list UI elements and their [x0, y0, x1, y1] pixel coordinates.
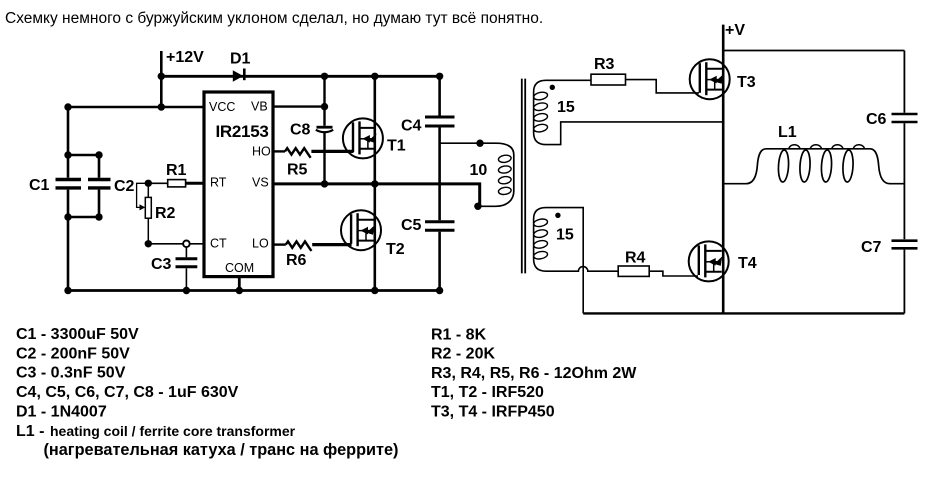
wire VB [273, 105, 325, 107]
inductor L1 [723, 145, 904, 184]
resistor R3 [591, 74, 626, 85]
capacitor C6 [892, 51, 918, 240]
phasing dot upper secondary [550, 85, 555, 90]
svg-text:C7: C7 [861, 239, 882, 256]
resistor R5 [285, 148, 311, 158]
node rail T1 [371, 73, 378, 80]
wire T2 drain-source vertical [373, 184, 376, 291]
svg-text:C1 - 3300uF 50V: C1 - 3300uF 50V [16, 326, 139, 343]
wire CT [148, 243, 204, 245]
node VCC junction [158, 103, 165, 110]
svg-text:T3: T3 [737, 74, 756, 91]
capacitor C4 [425, 76, 455, 220]
wire R1 to RT [186, 182, 204, 185]
node VB [321, 103, 328, 110]
phasing dot lower secondary [555, 213, 560, 218]
svg-text:D1: D1 [230, 51, 251, 68]
capacitor C1 [56, 107, 82, 291]
transistor T2 [341, 210, 381, 250]
svg-text:(нагревательная катуха / транс: (нагревательная катуха / транс на феррит… [44, 441, 399, 459]
node C1-C2 lower left [64, 213, 71, 220]
capacitor C5 [425, 222, 455, 291]
diode D1 [233, 69, 245, 82]
svg-text:VCC: VCC [209, 100, 235, 114]
wire ground rail [68, 289, 440, 292]
svg-text:VS: VS [252, 176, 269, 190]
svg-text:VB: VB [251, 100, 268, 114]
svg-text:T3, T4 - IRFP450: T3, T4 - IRFP450 [431, 404, 555, 421]
transformer secondary lower 15 turns [533, 208, 618, 314]
transistor T3 [690, 59, 730, 99]
node CT-C3 open junction [183, 241, 190, 248]
parts list right column [431, 326, 637, 420]
svg-text:T2: T2 [386, 241, 405, 258]
svg-text:C3 - 0.3nF 50V: C3 - 0.3nF 50V [16, 365, 126, 382]
node ground C3 [183, 287, 190, 294]
svg-text:HO: HO [252, 144, 271, 158]
svg-text:C2 - 200nF 50V: C2 - 200nF 50V [16, 345, 130, 362]
wire +12V supply vertical [160, 51, 163, 107]
resistor R4 [618, 266, 649, 276]
wire top right [723, 50, 904, 52]
svg-text:R3: R3 [594, 56, 615, 73]
wire COM to ground [238, 277, 241, 291]
svg-text:Схемку немного с буржуйским ук: Схемку немного с буржуйским уклоном сдел… [5, 10, 543, 27]
wire bottom right [583, 312, 904, 314]
svg-text:15: 15 [557, 99, 575, 116]
resistor R1 [168, 180, 186, 187]
svg-text:R4: R4 [625, 250, 646, 267]
svg-text:C6: C6 [866, 111, 887, 128]
capacitor C7 [892, 241, 918, 314]
wire T1 drain-source vertical [373, 76, 376, 184]
node ground COM [236, 287, 243, 294]
svg-text:15: 15 [556, 227, 574, 244]
node +12V rail junction [158, 73, 165, 80]
svg-text:IR2153: IR2153 [216, 122, 269, 141]
node VS C8 [321, 180, 328, 187]
node ground C5 [436, 287, 443, 294]
svg-text:LO: LO [252, 237, 269, 251]
svg-text:C2: C2 [114, 178, 135, 195]
svg-text:T1, T2 - IRF520: T1, T2 - IRF520 [431, 384, 544, 401]
svg-text:R2: R2 [155, 205, 176, 222]
wire C2 branch top [68, 154, 99, 157]
trimmer R2 [137, 183, 152, 244]
wire top rail D1 [161, 75, 439, 78]
node C1-C2 upper right [95, 151, 102, 158]
node rail C4 [436, 73, 443, 80]
parts list left column [16, 326, 398, 459]
node primary top [476, 140, 483, 147]
svg-text:R2 - 20K: R2 - 20K [431, 346, 495, 363]
node ground C1 [64, 287, 71, 294]
svg-text:+V: +V [725, 22, 745, 39]
capacitor C2 [88, 155, 111, 217]
svg-text:T1: T1 [387, 138, 406, 155]
wire node to R1 [148, 182, 167, 184]
node C1 top [64, 103, 71, 110]
svg-text:heating coil / ferrite core tr: heating coil / ferrite core transformer [50, 423, 296, 439]
transformer secondary upper 15 turns [533, 80, 723, 144]
transistor T4 [689, 241, 729, 281]
svg-text:+12V: +12V [166, 49, 204, 66]
node C1-C2 lower right [95, 213, 102, 220]
node R1-R2 junction [145, 180, 152, 187]
svg-text:COM: COM [225, 261, 254, 275]
svg-text:L1: L1 [778, 124, 797, 141]
svg-text:CT: CT [210, 237, 227, 251]
wire R6 to T2 gate [312, 243, 351, 246]
wire +V vertical [722, 25, 725, 314]
svg-text:R1: R1 [166, 162, 187, 179]
node VS T1-T2 [371, 180, 378, 187]
node C1-C2 upper left [64, 151, 71, 158]
transformer primary winding 10 turns [440, 143, 514, 206]
svg-text:C8: C8 [290, 122, 311, 139]
wire R4 to T4 gate [649, 271, 698, 276]
svg-text:RT: RT [210, 176, 227, 190]
svg-text:R1 - 8K: R1 - 8K [431, 326, 487, 343]
node R2-CT junction [145, 240, 152, 247]
node primary bottom [474, 203, 481, 210]
svg-text:C1: C1 [29, 177, 50, 194]
svg-text:R5: R5 [287, 162, 308, 179]
wire R5 to T1 gate [311, 150, 353, 153]
wire VCC [68, 106, 204, 109]
svg-text:C4: C4 [401, 118, 422, 135]
svg-text:L1 -: L1 - [16, 423, 44, 440]
svg-text:T4: T4 [738, 255, 757, 272]
svg-text:R3, R4, R5, R6 - 12Ohm 2W: R3, R4, R5, R6 - 12Ohm 2W [431, 365, 637, 382]
wire C2 branch bottom [68, 216, 99, 219]
svg-text:10: 10 [470, 162, 488, 179]
wire LO [273, 243, 286, 245]
transistor T1 [343, 118, 383, 158]
wire HO [273, 150, 285, 152]
svg-text:R6: R6 [286, 252, 307, 269]
capacitor C3 [176, 244, 198, 291]
capacitor C8 [316, 127, 333, 132]
svg-text:C5: C5 [401, 217, 422, 234]
wire R3 to T3 gate [626, 80, 700, 93]
IC U1 IR2153 [204, 92, 273, 277]
node rail C8 [321, 73, 328, 80]
wire bootstrap vertical [323, 76, 325, 184]
svg-text:D1 - 1N4007: D1 - 1N4007 [16, 403, 107, 420]
svg-text:C3: C3 [151, 256, 172, 273]
transformer core [522, 79, 525, 274]
node ground T2 [371, 287, 378, 294]
svg-text:C4, C5, C6, C7, C8 - 1uF 630V: C4, C5, C6, C7, C8 - 1uF 630V [16, 384, 239, 401]
wire VS rail [273, 184, 480, 206]
resistor R6 [286, 241, 312, 251]
